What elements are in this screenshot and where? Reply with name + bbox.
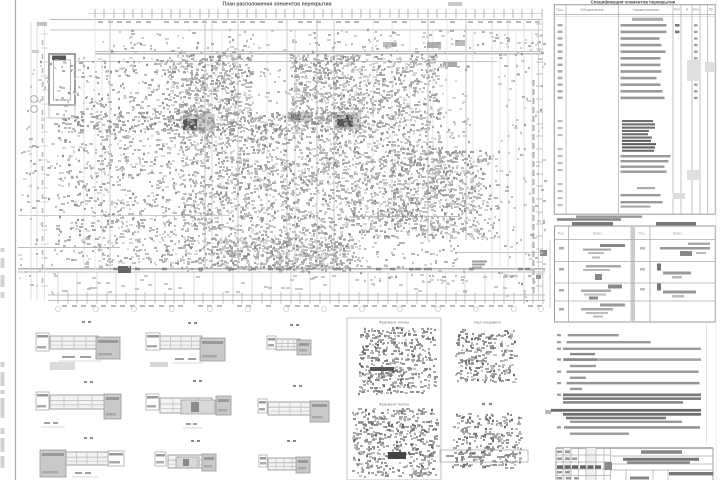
title block dark cell [605, 462, 613, 470]
plan texture centre lower dense [216, 238, 351, 270]
svg-text:План расположения элементов пе: План расположения элементов перекрытия [222, 1, 331, 7]
svg-text:Поз.: Поз. [558, 232, 565, 236]
bottom wall dark dashes [113, 268, 530, 271]
svg-text:Спецификация элементов перекры: Спецификация элементов перекрытия [591, 0, 676, 4]
plan upper wall line [50, 29, 542, 31]
left grid bubbles [31, 96, 38, 113]
bottom dimension numbers [62, 305, 542, 307]
top dimension ticks [95, 9, 542, 18]
spec table column lines [566, 5, 708, 215]
boxed detail 2 dark blob [388, 452, 406, 459]
plan texture right strip sparse [470, 153, 500, 239]
sketch row4 left [559, 304, 625, 318]
svg-text:Фрагмент плиты: Фрагмент плиты [379, 320, 410, 325]
title block project name line 1 [623, 458, 699, 461]
plan vertical gridlines [31, 18, 543, 300]
stair shaft inner rect [54, 60, 71, 100]
stair shaft dark blob [52, 56, 66, 61]
title block [556, 448, 713, 480]
spec shaded cell right 1 [687, 60, 701, 81]
stair shaft outer rect [49, 54, 75, 105]
spec section subheader bar [632, 18, 663, 21]
plan dark blob on bottom wall [118, 266, 131, 273]
sketch row2 left [559, 265, 621, 280]
boxed detail 1 dark bar [370, 367, 394, 371]
sheet frame right faint [715, 0, 717, 480]
svg-text:м: м [686, 8, 688, 12]
plan texture band upper-left cluster [165, 55, 254, 132]
spec dense middle block [622, 120, 656, 152]
plan texture lower mid [360, 241, 468, 285]
boxed detail frame [347, 318, 441, 480]
plan texture centre gap [241, 58, 294, 118]
beam detail 1-1 [36, 322, 120, 361]
left margin stamp marks [1, 248, 5, 468]
sketch table column lines [569, 226, 651, 322]
plan wall line y52 [95, 51, 542, 53]
sheet frame left line [15, 0, 17, 480]
sketch row1 right [640, 243, 710, 257]
plan texture right lower strip [440, 150, 474, 238]
svg-text:Фрагмент плиты: Фрагмент плиты [379, 402, 410, 407]
plan wall line y216 mid [360, 216, 460, 218]
plan wall line y54 [95, 53, 542, 55]
plan texture left [95, 58, 183, 268]
spec item rows [558, 24, 698, 99]
spec left col tiny marks lower [558, 120, 563, 206]
svg-text:Поз.: Поз. [556, 8, 563, 12]
plan texture mid-right cluster [391, 150, 483, 230]
plan bottom wall line [18, 268, 545, 270]
top dimension line [50, 19, 542, 21]
small dark right edge y275 [536, 275, 541, 279]
plan texture centre A [180, 55, 243, 118]
plan texture right [360, 55, 444, 238]
sketch table outer border [555, 226, 716, 322]
dark blob right edge y250 [540, 250, 547, 256]
plan texture far left sparse [18, 129, 34, 285]
plan wall line y62 [77, 61, 497, 63]
sketch table mid divider [631, 226, 636, 322]
plan dark cluster A core [183, 119, 197, 130]
svg-text:Наименование: Наименование [633, 8, 659, 12]
spec shaded cell far right [705, 62, 714, 72]
plan label mark 1 [383, 42, 397, 47]
bottom dimension line 2 [48, 300, 545, 302]
boxed detail cluster 1 [358, 328, 438, 394]
sketch row3 right [640, 284, 696, 298]
beam detail 5-5 [146, 381, 231, 428]
title block project name line 2 [627, 461, 690, 464]
beam detail 9-9 [259, 441, 310, 473]
left dimension column ticks [41, 34, 48, 286]
top dimension line 2 [88, 13, 542, 15]
title block doc number [641, 450, 682, 454]
beam detail 2-2 [146, 323, 225, 363]
beam detail 4-4 [36, 382, 121, 427]
svg-text:Эскиз: Эскиз [592, 232, 602, 236]
plan texture right upper sparse [441, 64, 471, 148]
plan wall line y215 left [18, 215, 230, 217]
stair shaft lower part [49, 105, 75, 118]
sketch table caption [557, 218, 621, 221]
svg-text:Поз.: Поз. [639, 232, 646, 236]
plan texture centre C [290, 55, 363, 118]
bottom dimension line 1 [48, 294, 545, 296]
sheet frame right segment [706, 322, 708, 445]
right detail beam bar [440, 450, 528, 462]
sketch row1 left [559, 244, 625, 259]
plan wall line y252 right [455, 252, 545, 254]
notes text lines [551, 334, 701, 435]
plan dark cluster C halo [335, 112, 361, 130]
plan bottom wall line 2 [18, 271, 545, 273]
svg-text:Пр: Пр [709, 8, 713, 12]
plan texture centre D [180, 118, 364, 272]
title block signature dark row [557, 465, 601, 468]
plan dark cluster A halo [183, 114, 215, 131]
sketch table header bar 1 [572, 222, 613, 225]
spec table outer border [554, 5, 715, 215]
bottom band sparse numbers [54, 275, 535, 292]
sketch table row lines [555, 240, 716, 302]
right detail 2-2 label [482, 403, 492, 405]
left small marks [37, 22, 47, 26]
right detail cluster 1 [455, 330, 518, 382]
svg-text:Узел опирания: Узел опирания [473, 320, 500, 325]
plan texture left sparse col [55, 58, 99, 267]
plan dark cluster B core [291, 114, 301, 120]
svg-text:Эскиз: Эскиз [672, 232, 682, 236]
svg-text:Кол: Кол [674, 8, 680, 12]
beam detail 6-6 [258, 386, 329, 422]
bottom dimension ticks [58, 272, 543, 304]
plan top-right small mark [448, 2, 462, 6]
plan label near x443 [443, 62, 457, 67]
plan dark cluster B halo [288, 112, 312, 122]
spec footnote line [576, 216, 642, 218]
plan texture top band [102, 30, 546, 54]
plan texture left edge [26, 62, 58, 294]
note item numbers [557, 335, 561, 427]
plan right edge line x550 [549, 240, 551, 308]
svg-text:Обозначение: Обозначение [580, 8, 603, 12]
plan wall annotation band [58, 112, 362, 132]
right detail beam bar marks [446, 454, 516, 457]
right detail cluster 2 [452, 414, 523, 468]
sketch row2 right [640, 264, 691, 279]
beam detail 8-8 [155, 441, 216, 471]
sketch row3 left [559, 285, 622, 300]
title block stage header bar [669, 472, 713, 475]
sketch table header bar 2 [656, 222, 696, 225]
plan texture far right [498, 34, 547, 301]
svg-text:Кол: Кол [693, 8, 699, 12]
plan texture band upper-right cluster [290, 55, 364, 132]
beam detail 7-7 [40, 438, 124, 477]
plan dark cluster C core [337, 115, 353, 127]
beam detail 3-3 [267, 325, 311, 355]
spec header underline [554, 14, 715, 16]
spec lower rows [621, 155, 686, 208]
title block small marks [557, 451, 578, 480]
top dimension numbers [98, 21, 540, 23]
small mark right of plan [545, 410, 551, 414]
plan vertical x84 [83, 62, 85, 270]
plan label mark 3 [455, 40, 465, 46]
spec shaded cell right 2 [687, 170, 701, 180]
bottom grid bubbles [55, 306, 543, 311]
plan wall line y247 [18, 247, 120, 249]
plan vertical x102 [101, 62, 103, 270]
title block bottom text [630, 477, 649, 480]
boxed detail cluster 2 [352, 409, 440, 477]
small text block near x472 y260 [472, 261, 487, 269]
plan label mark 2 [427, 42, 441, 48]
spec header underline 2 [554, 16, 715, 18]
small appendix marks under beam 1 [50, 362, 75, 370]
right dimension column ticks [534, 24, 544, 293]
